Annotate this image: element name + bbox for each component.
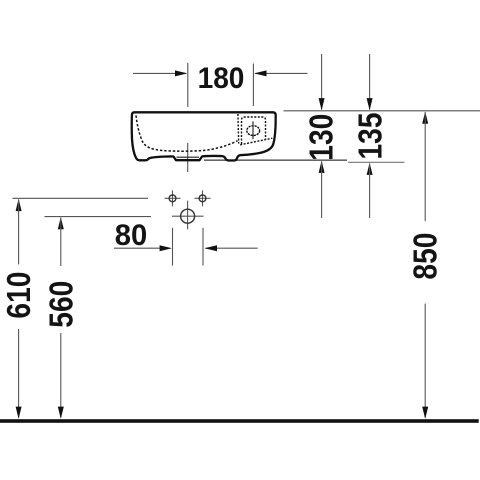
reference line 135 level <box>348 161 404 163</box>
dimension 80 <box>114 219 258 266</box>
svg-text:610: 610 <box>0 272 37 319</box>
basin interior bowl dashed <box>136 116 238 152</box>
svg-text:560: 560 <box>42 281 79 328</box>
centerline faucet x=253.4 <box>252 64 254 107</box>
dimension 560 <box>42 217 79 419</box>
faucet deck dashed rect <box>242 117 266 144</box>
floor line <box>0 419 479 423</box>
svg-text:135: 135 <box>351 113 388 160</box>
deck dashed vertical <box>237 114 240 144</box>
deck bottom dashed diagonal <box>240 138 272 145</box>
reference line 130 level <box>204 159 347 161</box>
svg-text:180: 180 <box>198 62 245 95</box>
extension line y=198 (hole level) left <box>13 197 149 199</box>
svg-text:130: 130 <box>302 114 339 161</box>
dimension 610 <box>0 199 37 419</box>
basin outline <box>132 112 276 160</box>
faucet hole symbol <box>247 121 260 139</box>
extension line y=216.6 (drain level) left <box>45 216 152 218</box>
centerline basin x=187.7 <box>187 63 189 107</box>
dimension 130 <box>302 54 339 218</box>
mounting hole left <box>165 190 181 206</box>
80 ext lines <box>172 228 174 266</box>
mounting hole right <box>195 190 211 206</box>
svg-text:850: 850 <box>407 233 444 280</box>
dimension 180 <box>133 62 308 95</box>
dimension 850 <box>407 111 444 419</box>
drain plinth inner line <box>177 156 200 158</box>
extension line y=110.8 (rim level) right <box>284 110 480 112</box>
dimension 135 <box>351 54 388 218</box>
drain hole <box>172 201 204 230</box>
svg-text:80: 80 <box>115 219 148 252</box>
